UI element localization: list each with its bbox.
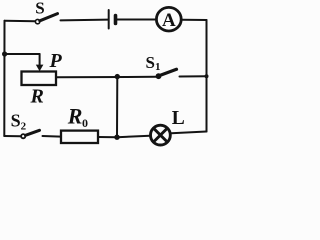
wire rheostat tap horizontal bbox=[5, 53, 40, 55]
wire R0 to junction bbox=[98, 136, 117, 138]
switch S pivot bbox=[35, 19, 39, 23]
switch S1 blade bbox=[159, 69, 177, 76]
rheostat wiper arrowhead bbox=[36, 65, 44, 72]
svg-text:L: L bbox=[172, 108, 185, 129]
wire S2 to R0 bbox=[43, 135, 62, 138]
wire ammeter to top-right corner bbox=[182, 19, 206, 21]
wire S1 to right vertical bbox=[180, 75, 207, 77]
wire junction to lamp bbox=[117, 136, 150, 137]
lamp L cross stroke 1 bbox=[154, 128, 168, 142]
wire middle vertical bbox=[116, 77, 118, 138]
switch S2 blade bbox=[26, 130, 40, 135]
wire rheostat to S1 row bbox=[56, 76, 156, 79]
wire bottom-left corner to S2 bbox=[4, 135, 21, 137]
resistor R0 box bbox=[61, 131, 98, 143]
svg-text:A: A bbox=[162, 10, 176, 31]
node at right vertical bbox=[205, 74, 209, 78]
node junction middle-bottom bbox=[114, 135, 119, 140]
battery long plate bbox=[108, 10, 110, 29]
wire left vertical bbox=[3, 21, 5, 136]
wire battery to ammeter bbox=[117, 19, 156, 21]
svg-text:P: P bbox=[49, 50, 63, 72]
wire rheostat tap vertical bbox=[39, 54, 41, 66]
node junction left bbox=[2, 51, 7, 56]
svg-text:S: S bbox=[35, 0, 44, 18]
svg-text:R: R bbox=[30, 86, 44, 108]
lamp L cross stroke 2 bbox=[154, 128, 168, 142]
rheostat R box bbox=[22, 72, 57, 86]
switch S blade bbox=[40, 14, 58, 21]
wire top-left segment bbox=[5, 20, 36, 22]
wire lamp to bottom-right corner bbox=[171, 132, 206, 134]
switch S2 pivot bbox=[21, 134, 25, 138]
lamp L circle bbox=[151, 125, 171, 145]
switch S1 pivot bbox=[156, 73, 162, 79]
node junction middle-top bbox=[115, 74, 120, 79]
ammeter A circle bbox=[156, 7, 181, 31]
wire S to battery bbox=[61, 19, 109, 22]
battery short plate bbox=[114, 16, 118, 24]
wire right vertical bbox=[206, 20, 208, 132]
